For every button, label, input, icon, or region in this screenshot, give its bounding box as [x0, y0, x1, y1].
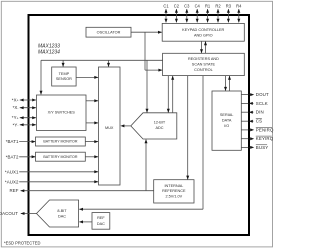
pin Y- [13, 122, 37, 127]
wire X/Y switches to mux b [86, 121, 98, 124]
wire temp sensor to mux [76, 76, 98, 79]
svg-text:*X+: *X+ [12, 98, 19, 103]
svg-text:C2: C2 [174, 3, 180, 8]
wire control to temp sensor [62, 60, 65, 67]
svg-text:C4: C4 [195, 3, 201, 8]
pin KEYIRQ [241, 136, 273, 141]
svg-text:*ESD PROTECTED: *ESD PROTECTED [4, 241, 40, 246]
wire scan control bus [40, 60, 163, 94]
wire ref DAC to 8-bit DAC [79, 220, 92, 223]
pin X+ [12, 98, 36, 103]
temp sensor [52, 67, 76, 86]
pin R3 [226, 3, 232, 22]
keypad controller and GPIO [162, 23, 244, 41]
svg-text:MAX1234: MAX1234 [38, 50, 60, 56]
svg-text:KEYIRQ: KEYIRQ [256, 136, 274, 141]
pin DIN [241, 110, 264, 115]
wire ADC to registers [171, 76, 174, 113]
wire reference to ADC [145, 139, 148, 190]
pin BUSY [241, 145, 268, 150]
wire serial I/O to registers [228, 76, 231, 91]
svg-text:OSCILLATOR: OSCILLATOR [97, 30, 121, 34]
pin CS [241, 119, 262, 124]
battery monitor 1 [36, 137, 86, 146]
pin BAT1 [6, 139, 36, 144]
wire registers to ADC [167, 76, 170, 113]
svg-text:REF: REF [10, 188, 19, 193]
pin Y+ [12, 115, 36, 120]
pin C1 [163, 3, 169, 22]
svg-text:KEYPAD CONTROLLER: KEYPAD CONTROLLER [182, 28, 224, 32]
wire keypad to registers [200, 41, 203, 53]
svg-text:DATA: DATA [222, 119, 232, 123]
svg-text:DIN: DIN [256, 110, 264, 115]
svg-text:SCAN STATE: SCAN STATE [192, 63, 216, 67]
wire registers to internal reference [186, 76, 189, 180]
wire registers to keypad [204, 41, 207, 53]
svg-text:12-BIT: 12-BIT [154, 121, 166, 125]
wire battery monitor 1 to mux [85, 140, 98, 143]
wire registers to serial I/O [224, 76, 227, 91]
pin REF / reference net [10, 188, 154, 193]
pin AUX1 [5, 169, 98, 174]
svg-text:AND GPIO: AND GPIO [194, 33, 213, 37]
pin X- [13, 105, 37, 110]
svg-text:R4: R4 [236, 3, 242, 8]
pin R1 [205, 3, 211, 22]
svg-text:*AUX1: *AUX1 [5, 169, 19, 174]
wire control to mux [107, 60, 110, 67]
svg-text:I/O: I/O [224, 124, 229, 128]
svg-text:ADC: ADC [155, 126, 163, 130]
registers and scan state control [163, 53, 245, 75]
wire control to ADC [146, 60, 149, 112]
svg-text:DACOUT: DACOUT [0, 211, 18, 216]
pin R4 [236, 3, 242, 22]
svg-text:*X-: *X- [13, 105, 19, 110]
svg-text:X/Y SWITCHES: X/Y SWITCHES [48, 110, 76, 114]
mux [99, 67, 121, 185]
svg-text:REFERENCE: REFERENCE [162, 189, 186, 193]
wire X/Y switches to mux a [86, 99, 98, 102]
svg-text:MUX: MUX [105, 126, 114, 130]
pin DACOUT [0, 211, 37, 216]
svg-text:2.5V/1.0V: 2.5V/1.0V [166, 194, 183, 198]
svg-text:CS: CS [256, 119, 262, 124]
pin PENIRQ [241, 127, 274, 132]
svg-text:SCLK: SCLK [256, 101, 268, 106]
svg-text:BATTERY MONITOR: BATTERY MONITOR [43, 140, 77, 144]
svg-text:R3: R3 [226, 3, 232, 8]
svg-text:SERIAL: SERIAL [220, 113, 234, 117]
svg-text:REGISTERS AND: REGISTERS AND [188, 57, 219, 61]
wire battery monitor 2 to mux [85, 155, 98, 158]
pin SCLK [241, 101, 268, 106]
svg-text:C1: C1 [163, 3, 169, 8]
oscillator [86, 27, 131, 37]
svg-text:REF: REF [97, 216, 105, 220]
12-bit ADC [131, 113, 177, 139]
IC outline [29, 15, 250, 235]
pin BAT2 [6, 154, 36, 159]
svg-text:R2: R2 [215, 3, 221, 8]
svg-text:BUSY: BUSY [256, 145, 269, 150]
wire oscillator to keypad controller [131, 31, 162, 34]
svg-text:C3: C3 [184, 3, 190, 8]
battery monitor 2 [36, 152, 86, 161]
wire oscillator to registers [145, 32, 162, 71]
svg-text:*BAT1: *BAT1 [6, 139, 19, 144]
ref DAC [92, 213, 110, 230]
part name MAX1233/MAX1234 [38, 44, 60, 56]
svg-text:TEMP: TEMP [59, 72, 70, 76]
wire ADC to mux [120, 124, 130, 127]
pin C4 [195, 3, 201, 22]
svg-text:BATTERY MONITOR: BATTERY MONITOR [43, 155, 77, 159]
svg-text:DAC: DAC [58, 214, 66, 218]
internal reference [154, 180, 194, 203]
pin DOUT [241, 92, 269, 97]
svg-text:DOUT: DOUT [256, 92, 269, 97]
X/Y switches [37, 95, 87, 131]
svg-text:INTERNAL: INTERNAL [164, 184, 183, 188]
svg-text:CONTROL: CONTROL [194, 68, 213, 72]
svg-text:*Y-: *Y- [13, 122, 19, 127]
svg-text:*AUX2: *AUX2 [5, 179, 19, 184]
svg-text:*Y+: *Y+ [12, 115, 19, 120]
pin C2 [174, 3, 180, 22]
wire registers to 8-bit DAC [79, 76, 203, 211]
pin AUX2 [5, 179, 98, 184]
svg-text:8-BIT: 8-BIT [57, 209, 67, 213]
svg-text:*BAT2: *BAT2 [6, 154, 19, 159]
svg-text:SENSOR: SENSOR [56, 77, 72, 81]
svg-text:DAC: DAC [97, 222, 105, 226]
8-bit DAC [37, 200, 79, 227]
pin C3 [184, 3, 190, 22]
pin R2 [215, 3, 221, 22]
svg-text:R1: R1 [205, 3, 211, 8]
svg-text:PENIRQ: PENIRQ [256, 127, 274, 132]
serial data I/O [212, 91, 241, 150]
